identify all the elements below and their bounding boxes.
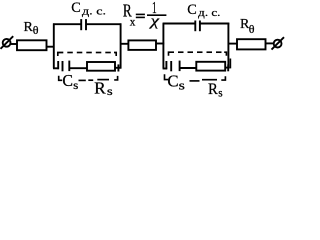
svg-text:s: s xyxy=(107,84,113,98)
wire xyxy=(156,43,164,45)
svg-text:C: C xyxy=(62,71,73,90)
wire xyxy=(266,42,274,44)
wire (top branch right) xyxy=(86,23,121,25)
svg-text:θ: θ xyxy=(33,23,39,37)
label R_x = 1/chi xyxy=(123,0,166,30)
svg-text:θ: θ xyxy=(249,22,255,36)
label C d.s. right xyxy=(187,2,220,19)
svg-text:С: С xyxy=(187,2,197,18)
wire xyxy=(11,43,18,45)
resistor R1 (R-theta left) xyxy=(17,40,47,50)
wire (top branch right, right block) xyxy=(200,23,229,25)
label C_s left xyxy=(62,71,78,92)
svg-text:s: s xyxy=(179,78,185,92)
svg-text:s: s xyxy=(73,78,79,92)
wire xyxy=(69,67,87,69)
svg-text:χ: χ xyxy=(148,14,160,30)
capacitor C3 (C d.s. right) xyxy=(194,21,196,32)
svg-text:R: R xyxy=(94,78,106,97)
label R_s right xyxy=(208,81,223,99)
node: right bus of left block xyxy=(120,23,122,68)
wire (top branch left, right block) xyxy=(163,23,196,25)
wire xyxy=(225,67,229,69)
label R_s left xyxy=(94,78,113,98)
label R-theta left xyxy=(24,20,39,37)
svg-text:R: R xyxy=(208,81,218,98)
junction tick (right block, bottom-right) xyxy=(227,64,229,71)
node: right bus of right block xyxy=(227,23,229,69)
svg-text:x: x xyxy=(130,17,136,29)
resistor R3 (R_x) xyxy=(128,40,156,50)
wire (doubled bus mark) xyxy=(229,59,231,69)
junction tick (left block, bottom-right) xyxy=(117,64,119,71)
terminal left xyxy=(3,39,11,47)
capacitor C4 (C_s right) xyxy=(165,61,167,69)
node: left bus of right block xyxy=(162,23,164,68)
wire (main, bus2 to Rx) xyxy=(121,43,129,45)
wire (bottom foot left) xyxy=(53,67,59,69)
label C_s right xyxy=(167,71,185,92)
svg-text:C: C xyxy=(167,71,178,90)
capacitor C1 (C d.s. left) xyxy=(80,19,82,30)
svg-text:д. с.: д. с. xyxy=(82,5,106,17)
wire (top branch left) xyxy=(53,23,81,25)
wire xyxy=(115,67,121,69)
resistor R2 (R_s left) xyxy=(87,62,115,71)
resistor R5 (R-theta right) xyxy=(237,39,266,49)
node: left bus of left block xyxy=(53,23,55,68)
label R-theta right xyxy=(240,17,255,36)
terminal right xyxy=(274,40,282,48)
wire (main, bus4 to R-theta right) xyxy=(228,43,237,45)
wire xyxy=(47,46,54,48)
svg-text:s: s xyxy=(218,87,223,99)
label C d.s. left xyxy=(71,0,106,17)
capacitor C2 (C_s left) xyxy=(57,61,59,69)
dashed box left (Cs-Rs group) xyxy=(58,53,118,81)
dashed box right (Cs-Rs group) xyxy=(165,52,227,81)
resistor R4 (R_s right) xyxy=(196,62,225,71)
svg-text:д. с.: д. с. xyxy=(198,7,220,19)
wire xyxy=(180,67,197,69)
svg-text:С: С xyxy=(71,0,81,16)
wire (bottom foot, right block) xyxy=(163,68,168,70)
